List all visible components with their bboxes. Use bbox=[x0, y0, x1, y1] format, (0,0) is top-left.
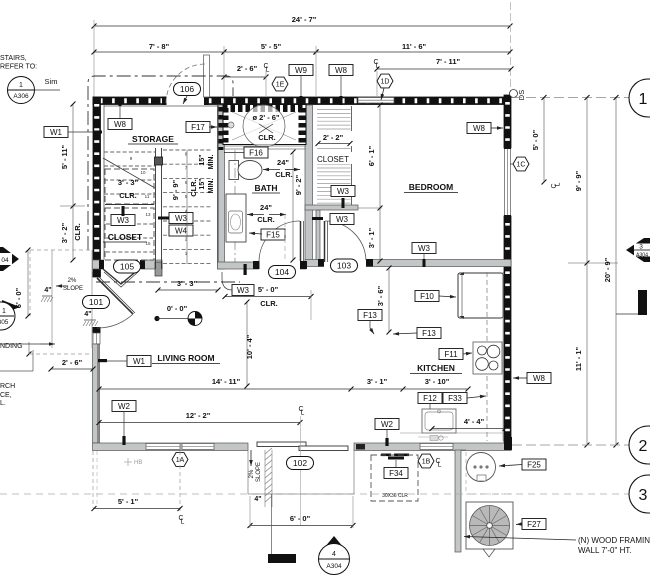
svg-text:F16: F16 bbox=[249, 148, 263, 157]
svg-text:MIN.: MIN. bbox=[208, 179, 215, 194]
top exterior wall bbox=[93, 97, 510, 105]
vanity bbox=[226, 194, 246, 242]
svg-text:DS: DS bbox=[517, 90, 526, 100]
centerline sym 7-11 bbox=[373, 59, 379, 70]
label F13 a bbox=[358, 310, 382, 321]
oval 106 bbox=[174, 83, 201, 96]
svg-text:105: 105 bbox=[120, 261, 134, 271]
door 104 arc bbox=[259, 221, 300, 261]
svg-text:CLR.: CLR. bbox=[260, 299, 278, 308]
kitchen counter bottom bbox=[400, 432, 504, 434]
landing dim line bbox=[28, 342, 30, 354]
svg-text:20' - 9": 20' - 9" bbox=[603, 257, 612, 282]
svg-text:CLR.: CLR. bbox=[275, 170, 293, 179]
svg-text:4": 4" bbox=[254, 496, 261, 503]
stair closet dashed box bbox=[105, 208, 154, 260]
kitchen bottom window bbox=[420, 444, 453, 450]
dim 9'-9 stair bbox=[186, 150, 188, 264]
svg-text:4' - 4": 4' - 4" bbox=[464, 417, 485, 426]
dim 5'-11 left bbox=[72, 104, 74, 260]
section cut bar bottom bbox=[268, 554, 296, 563]
fridge F10 bbox=[458, 273, 503, 318]
door 106 opening bbox=[166, 96, 205, 106]
marker 4/A304 bottom bbox=[320, 536, 348, 553]
svg-text:9' - 9": 9' - 9" bbox=[574, 170, 583, 191]
svg-text:9' - 2": 9' - 2" bbox=[294, 174, 303, 195]
shower head bbox=[228, 122, 234, 128]
hex 1C bbox=[513, 157, 529, 171]
svg-text:103: 103 bbox=[337, 260, 351, 270]
grid bubble 1 bbox=[629, 79, 650, 117]
label W1 left bbox=[44, 127, 68, 138]
living room window 2 bbox=[182, 444, 214, 450]
dimension 24'-7" overall top bbox=[94, 25, 510, 27]
door 101 leaf bbox=[97, 278, 133, 314]
svg-text:15": 15" bbox=[199, 178, 206, 189]
svg-text:W8: W8 bbox=[473, 124, 486, 133]
marker A305 circle bbox=[2, 300, 20, 314]
door 106 jamb right bbox=[204, 97, 209, 106]
closet bottom wall bbox=[305, 205, 358, 210]
svg-text:MIN.: MIN. bbox=[208, 155, 215, 170]
bedroom closet right line bbox=[351, 106, 353, 205]
stair center stringer bbox=[155, 148, 157, 269]
label W8 bedroom bbox=[467, 123, 491, 134]
stair treads left flight bbox=[104, 151, 155, 153]
grid bubble 3 bbox=[629, 475, 650, 513]
DS circle bbox=[510, 90, 518, 98]
svg-text:W3: W3 bbox=[418, 244, 431, 253]
svg-text:2' - 6": 2' - 6" bbox=[237, 64, 258, 73]
svg-text:A304: A304 bbox=[636, 253, 648, 259]
dim 3'-1 kitchen bbox=[401, 387, 406, 392]
svg-text:1B: 1B bbox=[422, 458, 431, 465]
left wall door101 jamb bot bbox=[93, 327, 101, 333]
closet hall wall lower bbox=[316, 210, 320, 266]
extension line right x510 dashed bbox=[510, 2, 512, 97]
marker A304 diamond left bbox=[0, 247, 19, 271]
hex 1D bbox=[377, 74, 393, 88]
oval 102 bbox=[287, 457, 314, 470]
svg-text:6' - 1": 6' - 1" bbox=[367, 145, 376, 166]
closet label bedroom bbox=[314, 152, 353, 164]
toilet bbox=[229, 161, 239, 180]
centerline sym top door bbox=[263, 63, 269, 74]
label W9 bbox=[289, 65, 313, 76]
bedroom bottom wall bbox=[305, 260, 511, 267]
svg-text:W3: W3 bbox=[337, 187, 350, 196]
svg-text:3: 3 bbox=[639, 244, 643, 251]
door 103 opening bbox=[324, 259, 366, 268]
svg-text:W2: W2 bbox=[381, 420, 394, 429]
svg-text:STAIRS,: STAIRS, bbox=[0, 55, 27, 62]
vanity clearance dashed bbox=[284, 214, 286, 261]
bath door jamb right bbox=[300, 261, 307, 269]
svg-text:1: 1 bbox=[19, 82, 23, 89]
svg-text:3' - 3": 3' - 3" bbox=[177, 279, 198, 288]
svg-text:24": 24" bbox=[260, 203, 272, 212]
svg-text:F11: F11 bbox=[444, 350, 458, 359]
svg-text:5' - 11": 5' - 11" bbox=[60, 145, 69, 170]
extension line x266 bbox=[265, 70, 267, 96]
svg-text:CLOSET: CLOSET bbox=[317, 155, 349, 164]
svg-text:5' - 5": 5' - 5" bbox=[261, 42, 282, 51]
label F27 bbox=[522, 519, 546, 530]
hex 1A bbox=[172, 453, 188, 467]
dim 6'-0 left porch bbox=[27, 250, 29, 316]
stair wall return bbox=[155, 262, 162, 276]
label W2 living bbox=[112, 401, 136, 412]
svg-text:F13: F13 bbox=[363, 311, 377, 320]
dim 3'-3 hall bbox=[158, 289, 218, 291]
svg-text:104: 104 bbox=[275, 267, 289, 277]
left exterior wall upper bbox=[93, 97, 101, 277]
dimension 11'-6" bbox=[316, 51, 510, 53]
dim 5'-0 right bbox=[543, 98, 545, 183]
svg-text:L: L bbox=[555, 182, 562, 186]
grid bubble 2 bbox=[629, 426, 650, 464]
stair treads right flight bbox=[163, 149, 212, 151]
dimension 5'-5" bbox=[224, 51, 316, 53]
door 105 bifold bbox=[103, 269, 139, 284]
svg-text:F27: F27 bbox=[527, 520, 541, 529]
dim 3'-6 kitchen bbox=[388, 268, 390, 332]
dim 9'-9 right bbox=[586, 98, 588, 446]
porch step hatch bbox=[265, 448, 272, 454]
svg-text:04: 04 bbox=[1, 257, 9, 264]
svg-text:106: 106 bbox=[180, 84, 194, 94]
svg-text:14' - 11": 14' - 11" bbox=[212, 377, 241, 386]
left exterior wall lower gray bbox=[93, 344, 100, 443]
svg-text:CLOSET: CLOSET bbox=[108, 232, 143, 242]
door 106 leaf bbox=[204, 55, 210, 97]
label W4 stair bbox=[169, 225, 193, 236]
extension line x224 bbox=[223, 46, 225, 104]
stair up diagonal bbox=[103, 158, 155, 188]
bath bottom wall bbox=[218, 262, 307, 269]
svg-text:L: L bbox=[181, 519, 185, 526]
svg-text:REFER TO:: REFER TO: bbox=[0, 64, 37, 71]
svg-text:L: L bbox=[438, 462, 442, 469]
svg-text:0' - 0": 0' - 0" bbox=[167, 304, 188, 313]
left L line bbox=[0, 370, 33, 372]
svg-text:CLR.: CLR. bbox=[119, 191, 137, 200]
kitchen sink bbox=[422, 409, 456, 433]
dashdot line mid bbox=[96, 281, 240, 283]
bath door jamb left bbox=[253, 261, 260, 269]
svg-text:11' - 1": 11' - 1" bbox=[574, 347, 583, 372]
svg-text:1D: 1D bbox=[381, 78, 390, 85]
svg-text:3' - 1": 3' - 1" bbox=[367, 377, 388, 386]
svg-text:1E: 1E bbox=[276, 81, 285, 88]
svg-text:3' - 3": 3' - 3" bbox=[118, 178, 139, 187]
svg-text:10: 10 bbox=[140, 170, 146, 175]
svg-text:W2: W2 bbox=[118, 402, 131, 411]
svg-text:SLOPE: SLOPE bbox=[256, 462, 262, 482]
svg-text:1C: 1C bbox=[517, 161, 526, 168]
right exterior wall lower bbox=[504, 216, 511, 450]
svg-text:3' - 2": 3' - 2" bbox=[60, 222, 69, 243]
svg-text:STORAGE: STORAGE bbox=[132, 134, 174, 144]
label F11 bbox=[439, 349, 463, 360]
svg-text:F10: F10 bbox=[420, 292, 434, 301]
svg-text:5' - 0": 5' - 0" bbox=[531, 129, 540, 150]
svg-text:5' - 0": 5' - 0" bbox=[258, 285, 279, 294]
door 105 jamb right bbox=[140, 260, 145, 269]
counter dashed edge bbox=[486, 272, 488, 441]
stair clr dashed box bbox=[105, 169, 154, 204]
dim 14'-11 bbox=[99, 388, 351, 390]
bedroom top window W9 bbox=[358, 98, 394, 104]
extension line x316 bbox=[315, 46, 317, 96]
oval 103 bbox=[331, 259, 358, 272]
door 103 jamb left bbox=[318, 259, 324, 267]
condenser fan bbox=[470, 506, 510, 546]
cooktop F11 bbox=[473, 342, 502, 374]
section marker 1/A306 bbox=[8, 77, 35, 104]
dim 10'-4 bbox=[246, 302, 248, 386]
living room window 1 bbox=[146, 444, 180, 450]
grid line 1 bbox=[512, 97, 630, 99]
svg-text:ø 2' - 6": ø 2' - 6" bbox=[252, 113, 279, 122]
stair east wall (bath west) bbox=[218, 105, 225, 269]
left porch dashed side bbox=[29, 250, 31, 316]
svg-text:2%: 2% bbox=[249, 469, 255, 478]
label W8 storage bbox=[108, 119, 132, 130]
bottom wall kitchen left seg bbox=[354, 443, 511, 451]
left porch edge lines bbox=[51, 250, 53, 348]
svg-text:12' - 2": 12' - 2" bbox=[186, 411, 211, 420]
svg-text:WALL 7'-0" HT.: WALL 7'-0" HT. bbox=[578, 546, 632, 555]
shower enclosure bbox=[223, 105, 306, 145]
right window jambs bbox=[504, 144, 511, 149]
svg-text:F12: F12 bbox=[423, 394, 437, 403]
bath east wall bbox=[305, 105, 313, 262]
svg-text:7' - 11": 7' - 11" bbox=[436, 57, 461, 66]
hex 1B bbox=[418, 454, 434, 468]
dimension 2'-6" door bbox=[224, 76, 266, 78]
dim 20'-9 right bbox=[615, 98, 617, 446]
svg-text:11' - 6": 11' - 6" bbox=[402, 42, 427, 51]
dimension 7'-11" bbox=[377, 68, 511, 70]
sliding door 102 panel left bbox=[257, 442, 306, 447]
storage inner line left bbox=[103, 105, 105, 260]
svg-text:CE,: CE, bbox=[0, 392, 12, 399]
svg-text:13: 13 bbox=[145, 212, 151, 217]
svg-text:24": 24" bbox=[277, 158, 289, 167]
svg-text:L.: L. bbox=[0, 400, 6, 407]
dim 6'-1 bedroom bbox=[379, 105, 381, 261]
svg-text:A304: A304 bbox=[326, 563, 342, 570]
svg-text:W1: W1 bbox=[50, 128, 63, 137]
svg-text:KITCHEN: KITCHEN bbox=[417, 363, 455, 373]
dashdot roof outline bbox=[88, 76, 233, 250]
right wall window 1C bbox=[505, 148, 511, 216]
grid line 3 bbox=[0, 493, 632, 495]
counter inner line bbox=[502, 272, 504, 441]
svg-text:BEDROOM: BEDROOM bbox=[409, 182, 453, 192]
label W1 living bbox=[127, 356, 151, 367]
oval 105 bbox=[114, 260, 141, 273]
water heater F25 bbox=[467, 453, 496, 482]
grid line 2 bbox=[512, 444, 631, 446]
svg-text:RCH: RCH bbox=[0, 383, 15, 390]
label W3 closet upper bbox=[331, 186, 355, 197]
dim 2'-6 left lower bbox=[51, 368, 93, 370]
dim 5'-1 porch bbox=[94, 508, 180, 510]
svg-text:W8: W8 bbox=[335, 66, 348, 75]
svg-text:3' - 1": 3' - 1" bbox=[367, 227, 376, 248]
svg-text:L: L bbox=[376, 63, 380, 70]
svg-text:2%: 2% bbox=[68, 278, 77, 284]
label W3 bedroom wall bbox=[412, 243, 436, 254]
svg-text:2' - 2": 2' - 2" bbox=[323, 133, 344, 142]
dim 2'-2 bbox=[316, 131, 352, 146]
left wall door101 jamb top bbox=[93, 272, 101, 277]
door 103 leaf bbox=[324, 221, 326, 262]
svg-text:W4: W4 bbox=[175, 226, 188, 235]
svg-text:6' - 0": 6' - 0" bbox=[14, 287, 23, 308]
svg-text:1: 1 bbox=[639, 91, 648, 108]
svg-text:4: 4 bbox=[332, 551, 336, 558]
svg-text:2' - 6": 2' - 6" bbox=[62, 358, 83, 367]
dim 5'-0 clr hall bbox=[225, 296, 311, 298]
label W3 stair closet bbox=[111, 215, 135, 226]
svg-text:W1: W1 bbox=[133, 357, 146, 366]
right exterior wall upper bbox=[504, 95, 511, 148]
svg-text:W3: W3 bbox=[336, 215, 349, 224]
svg-text:9' - 9": 9' - 9" bbox=[171, 179, 180, 200]
svg-text:W8: W8 bbox=[533, 374, 546, 383]
svg-text:W3: W3 bbox=[117, 216, 130, 225]
hex 1E bbox=[272, 77, 288, 91]
low wall dashes below kitchen window bbox=[381, 454, 391, 457]
extension line left x94 bbox=[93, 20, 95, 97]
door 106 arc dashed bbox=[166, 64, 205, 103]
sliding door 102 panel right bbox=[299, 446, 348, 451]
water heater closet wall bbox=[455, 450, 461, 552]
svg-text:4": 4" bbox=[44, 287, 51, 294]
kitchen bottom wall dark tick bbox=[356, 444, 365, 450]
oval 104 bbox=[269, 266, 296, 279]
shower curb bbox=[223, 145, 306, 147]
label F33 bbox=[443, 393, 467, 404]
door 105 jamb left bbox=[99, 260, 104, 269]
wh closet top bbox=[461, 449, 466, 451]
label W2 kitchen bbox=[375, 419, 399, 430]
svg-text:F34: F34 bbox=[389, 469, 403, 478]
svg-text:Sim: Sim bbox=[45, 77, 58, 86]
door 106 jamb left bbox=[162, 97, 167, 106]
section cut bar right bbox=[638, 290, 647, 315]
svg-text:CLR.: CLR. bbox=[257, 215, 275, 224]
svg-text:1: 1 bbox=[2, 308, 6, 315]
oval 101 bbox=[83, 296, 110, 309]
svg-text:30X36 CLR: 30X36 CLR bbox=[382, 493, 408, 499]
svg-text:HB: HB bbox=[134, 460, 142, 466]
shower circle bbox=[243, 105, 285, 147]
left porch dashed top bbox=[30, 249, 92, 251]
bath centerline dashdot bbox=[234, 150, 236, 262]
door 103 arc bbox=[325, 221, 366, 260]
bottom wall right corner black bbox=[504, 437, 512, 450]
svg-text:W8: W8 bbox=[114, 120, 127, 129]
svg-text:6' - 0": 6' - 0" bbox=[290, 514, 311, 523]
extension line x301 lower bbox=[300, 416, 302, 526]
label F25 bbox=[522, 459, 546, 470]
porch 102 outline bbox=[247, 451, 249, 495]
door 105 opening bbox=[103, 259, 141, 270]
washer dashed box bbox=[371, 455, 418, 501]
svg-text:SLOPE: SLOPE bbox=[63, 286, 83, 292]
svg-text:BATH: BATH bbox=[255, 183, 278, 193]
dim 9'-2 bath bbox=[292, 152, 294, 260]
stair closet bottom wall bbox=[93, 260, 163, 269]
svg-text:CLR.: CLR. bbox=[73, 223, 82, 241]
svg-text:A306: A306 bbox=[13, 93, 29, 100]
svg-text:F15: F15 bbox=[266, 230, 280, 239]
svg-text:3' - 10": 3' - 10" bbox=[425, 377, 450, 386]
svg-text:L: L bbox=[301, 410, 305, 417]
svg-text:F25: F25 bbox=[527, 460, 541, 469]
svg-text:CLR.: CLR. bbox=[258, 133, 276, 142]
door 101 arc bbox=[97, 314, 134, 329]
label F10 bbox=[415, 291, 439, 302]
marker A304 diamond right bbox=[626, 238, 650, 262]
condenser F27 bbox=[466, 502, 513, 549]
svg-text:15": 15" bbox=[199, 154, 206, 165]
svg-text:F33: F33 bbox=[448, 394, 462, 403]
label W8 kitchen right bbox=[527, 373, 551, 384]
svg-text:2: 2 bbox=[639, 438, 648, 455]
dim 6'-0 porch bbox=[250, 525, 353, 527]
svg-text:7' - 8": 7' - 8" bbox=[149, 42, 170, 51]
bedroom closet shelves bbox=[317, 109, 351, 111]
svg-text:11: 11 bbox=[145, 194, 150, 199]
label F16 bbox=[244, 147, 268, 158]
condenser break bbox=[483, 549, 495, 557]
svg-text:F17: F17 bbox=[191, 123, 205, 132]
svg-text:5' - 1": 5' - 1" bbox=[118, 497, 139, 506]
svg-text:W3: W3 bbox=[175, 214, 188, 223]
label F13 b bbox=[417, 328, 441, 339]
svg-text:LIVING ROOM: LIVING ROOM bbox=[157, 353, 214, 363]
label W3 stair mid bbox=[169, 213, 193, 224]
storage inner line top bbox=[104, 105, 217, 107]
shower pan lines bbox=[232, 112, 296, 140]
svg-text:305: 305 bbox=[0, 319, 9, 326]
wh dashed bbox=[465, 452, 467, 494]
dim 3'-10 kitchen bbox=[466, 387, 471, 392]
porch left dashed bbox=[92, 451, 94, 508]
porch step lines bbox=[264, 450, 266, 507]
svg-text:(N) WOOD FRAMING: (N) WOOD FRAMING bbox=[578, 536, 650, 545]
dim 4'-4 bbox=[432, 428, 505, 430]
label F15 bbox=[261, 229, 285, 240]
bath door 104 opening bbox=[259, 261, 300, 270]
svg-text:CLR.: CLR. bbox=[189, 179, 198, 197]
svg-text:W9: W9 bbox=[295, 66, 308, 75]
door 104 leaf bbox=[300, 221, 302, 261]
svg-text:4": 4" bbox=[84, 311, 91, 318]
svg-text:3: 3 bbox=[639, 487, 648, 504]
label W3 hall bbox=[232, 285, 254, 296]
label F12 bbox=[418, 393, 442, 404]
svg-text:101: 101 bbox=[89, 297, 103, 307]
left wall sidelight window bbox=[93, 333, 100, 344]
svg-text:F13: F13 bbox=[422, 329, 436, 338]
extension line x377 bbox=[376, 71, 378, 96]
